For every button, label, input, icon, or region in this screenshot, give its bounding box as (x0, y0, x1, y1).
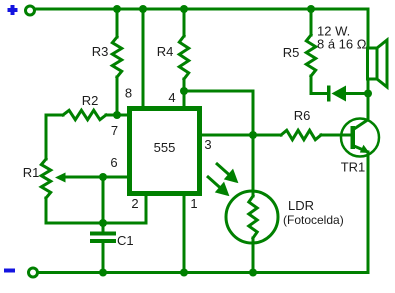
svg-text:LDR: LDR (288, 198, 314, 213)
svg-text:7: 7 (111, 123, 118, 138)
junction node 2 (99, 219, 107, 227)
wire diode to node (346, 92, 368, 95)
junction bottom LDR (249, 269, 257, 277)
junction node 6 (99, 173, 107, 181)
wire pin4 stub (183, 91, 186, 107)
terminal negative (29, 268, 38, 277)
resistor R6 (281, 130, 321, 139)
junction node 7 (113, 111, 121, 119)
speaker SP1 frame (368, 48, 378, 79)
svg-text:R1: R1 (23, 165, 40, 180)
wire LDR bottom lead (252, 238, 255, 273)
resistor R4 (179, 36, 188, 79)
junction node 3 (249, 131, 257, 139)
wire R1 wiper (64, 176, 103, 179)
wire C1 bottom lead (102, 243, 105, 273)
wire bottom rail (38, 152, 368, 273)
wire pin8 branch (142, 9, 145, 107)
LDR light arrow 2 (207, 176, 227, 194)
junction diode speaker (364, 90, 372, 98)
svg-text:8 á 16 Ω: 8 á 16 Ω (317, 37, 367, 52)
wire R5 bottom to diode (311, 76, 329, 94)
transistor TR1 emitter (354, 146, 368, 152)
capacitor C1 plates (90, 232, 116, 244)
svg-text:555: 555 (154, 140, 176, 155)
transistor TR1 base bar (351, 126, 356, 149)
wire left rail lower to pin2 (46, 196, 146, 223)
resistor R3 (112, 37, 121, 77)
wire left rail upper (45, 115, 48, 159)
resistor R1 (41, 159, 50, 198)
resistor R2 (63, 110, 106, 119)
resistor R5 (306, 35, 315, 76)
terminal positive (26, 6, 35, 15)
wire pin1 lead (183, 196, 186, 273)
wire R2 left lead (46, 114, 63, 117)
junction top R3 (113, 5, 121, 13)
minus symbol (4, 269, 15, 273)
svg-text:1: 1 (190, 196, 197, 211)
diode D1 (327, 86, 346, 102)
svg-text:R6: R6 (294, 108, 311, 123)
wire R3 branch top (116, 9, 119, 37)
svg-text:R4: R4 (157, 44, 174, 59)
wire C1 top lead (102, 177, 105, 232)
wire LDR top lead (252, 135, 255, 196)
junction top R4 (180, 5, 188, 13)
svg-text:C1: C1 (117, 233, 134, 248)
svg-text:R2: R2 (82, 93, 99, 108)
svg-text:6: 6 (110, 155, 117, 170)
LDR resistor zigzag (249, 196, 257, 238)
svg-text:4: 4 (168, 90, 175, 105)
plus symbol (8, 5, 18, 15)
wire node4 to pin3 line (184, 91, 253, 135)
svg-text:TR1: TR1 (341, 160, 366, 175)
transistor TR1 collector (354, 119, 369, 129)
wire pin7 stub (117, 114, 129, 117)
svg-text:R3: R3 (92, 44, 109, 59)
transistor TR1 emitter arrow (360, 145, 370, 153)
svg-text:8: 8 (125, 86, 132, 101)
wire R6 to base (321, 134, 352, 137)
IC U1 555 (130, 109, 200, 194)
wire R3 bottom to node7 (116, 77, 119, 115)
LDR light arrow 1 (216, 163, 236, 181)
transistor TR1 circle (341, 119, 379, 157)
svg-text:(Fotocelda): (Fotocelda) (283, 213, 344, 227)
svg-text:R5: R5 (283, 45, 300, 60)
wire R4 bottom to node4 (183, 79, 186, 91)
junction top pin8 (139, 5, 147, 13)
junction node 4 (180, 87, 188, 95)
wire top rail (35, 9, 368, 118)
wire pin3 line (201, 134, 281, 137)
wire R4 top lead (183, 9, 186, 36)
wire pin6 stub (103, 176, 129, 179)
svg-text:2: 2 (131, 196, 138, 211)
svg-text:3: 3 (204, 137, 211, 152)
R1 wiper arrowhead (55, 173, 66, 183)
LDR photocell circle (226, 191, 278, 243)
speaker SP1 cone (377, 40, 387, 87)
junction bottom C1 (99, 269, 107, 277)
junction top R5 (307, 5, 315, 13)
wire R2 right lead (106, 114, 117, 117)
junction bottom pin1 (180, 269, 188, 277)
wire R5 top lead (310, 9, 313, 35)
